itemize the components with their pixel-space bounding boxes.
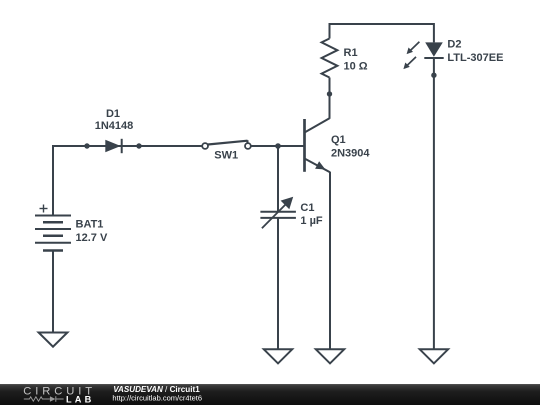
svg-text:Q1: Q1 — [331, 134, 346, 146]
svg-text:D1: D1 — [106, 108, 120, 120]
ground (capacitor branch) — [264, 349, 292, 363]
battery BAT1 — [35, 205, 71, 251]
wire — [277, 218, 279, 349]
node (R1 bottom terminal) — [327, 91, 332, 96]
resistor R1 — [322, 39, 338, 78]
svg-text:SW1: SW1 — [214, 150, 238, 162]
wire — [277, 146, 279, 212]
svg-text:LTL-307EE: LTL-307EE — [447, 52, 503, 64]
wire — [329, 78, 331, 95]
transistor Q1 — [305, 118, 331, 172]
ground (battery) — [39, 333, 68, 347]
svg-text:2N3904: 2N3904 — [331, 147, 370, 159]
svg-text:http://circuitlab.com/cr4tet6: http://circuitlab.com/cr4tet6 — [112, 393, 202, 402]
svg-text:D2: D2 — [447, 39, 461, 51]
wire — [52, 251, 54, 333]
svg-text:1N4148: 1N4148 — [95, 120, 134, 132]
wire — [52, 145, 54, 215]
diode D1 — [84, 139, 141, 153]
node (junction at capacitor tap) — [275, 143, 281, 149]
svg-text:1 µF: 1 µF — [300, 215, 323, 227]
svg-text:10 Ω: 10 Ω — [344, 60, 368, 72]
svg-text:C1: C1 — [300, 202, 314, 214]
wire — [329, 172, 331, 349]
switch SW1 — [202, 140, 251, 149]
svg-text:BAT1: BAT1 — [76, 219, 104, 231]
svg-text:LAB: LAB — [66, 395, 94, 405]
wire — [251, 145, 305, 147]
wire — [329, 94, 331, 119]
ground (emitter branch) — [316, 349, 344, 363]
logo circuit squiggle — [24, 396, 64, 402]
ground (LED branch) — [420, 349, 448, 363]
wire — [433, 58, 435, 349]
wire — [330, 24, 434, 42]
LED D2 — [403, 42, 443, 78]
svg-text:12.7 V: 12.7 V — [76, 232, 108, 244]
wire — [53, 145, 203, 147]
svg-text:R1: R1 — [344, 47, 358, 59]
capacitor C1 (variable) — [260, 197, 296, 228]
